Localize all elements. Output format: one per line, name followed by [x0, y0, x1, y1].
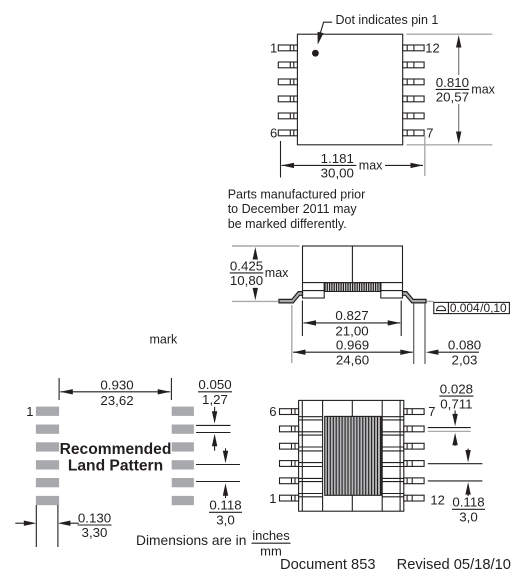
svg-text:6: 6: [270, 125, 277, 140]
svg-text:0.969: 0.969: [336, 338, 369, 353]
land pad left row 3: [36, 442, 59, 451]
svg-text:3,0: 3,0: [459, 510, 478, 525]
winding area (hatched): [325, 416, 382, 495]
svg-text:23,62: 23,62: [100, 393, 133, 408]
extension lines for 0.827 (dark): [301, 301, 303, 337]
top view pin 6 (left): [278, 130, 297, 136]
land pad right row 1: [172, 407, 194, 416]
bottom view pin 7 (right): [404, 409, 424, 415]
extension lines for 0.969 (gray): [291, 305, 293, 363]
bottom view pin 6 (left): [280, 409, 299, 415]
svg-text:0.080: 0.080: [448, 338, 481, 353]
svg-text:6: 6: [269, 404, 276, 419]
svg-text:21,00: 21,00: [335, 323, 368, 338]
extension line lead tip right (gray): [424, 303, 426, 364]
svg-text:1: 1: [269, 491, 276, 506]
top view pin 1 (left): [278, 45, 297, 51]
seating plane line right (gray): [427, 300, 434, 302]
svg-text:mark: mark: [150, 332, 179, 346]
extension line top left (gray): [232, 245, 300, 247]
land pad left row 5: [36, 478, 59, 487]
land pad right row 5: [172, 478, 194, 487]
pin 1 dot callout leader: [319, 22, 332, 36]
svg-text:0.028: 0.028: [440, 382, 473, 397]
package body top view: [297, 34, 402, 145]
top view pin 10 (right): [403, 79, 424, 85]
land pad left row 1: [36, 407, 59, 416]
svg-text:Parts manufactured prior: Parts manufactured prior: [228, 188, 366, 202]
seating plane symbol: [437, 306, 446, 311]
side view right terminal blocks: [381, 283, 403, 291]
seating plane line left (gray): [232, 300, 279, 302]
svg-text:7: 7: [426, 125, 433, 140]
land pad left row 6: [36, 496, 59, 505]
top view pin 5 (left): [278, 113, 297, 119]
side view left terminal blocks: [303, 283, 325, 291]
svg-text:0.930: 0.930: [100, 378, 133, 393]
svg-text:0.118: 0.118: [209, 498, 241, 513]
top view pin 2 (left): [278, 62, 297, 68]
svg-text:1.181: 1.181: [321, 151, 354, 166]
extension line top (gray): [407, 33, 493, 35]
side view winding (hatched): [324, 283, 381, 292]
svg-text:1,27: 1,27: [202, 392, 228, 407]
svg-text:20,57: 20,57: [436, 90, 469, 105]
bottom view pin 9 (right): [404, 443, 424, 449]
dimension 0.080/2,03: [436, 351, 451, 353]
bottom view body outline: [299, 400, 404, 511]
svg-text:max: max: [265, 266, 289, 280]
land pad left row 2: [36, 425, 59, 434]
left terminal block dividers: [299, 417, 323, 497]
svg-text:30,00: 30,00: [321, 166, 354, 181]
top view pin 11 (right): [403, 62, 424, 68]
svg-text:1: 1: [270, 41, 277, 56]
dimension 0.130/3,30 arrows: [15, 522, 26, 524]
extension line right (gray) for 1.181: [424, 136, 426, 177]
top view pin 12 (right): [403, 45, 424, 51]
svg-text:12: 12: [430, 493, 444, 508]
land pad right row 2: [172, 425, 194, 434]
svg-text:12: 12: [425, 41, 439, 56]
bobbin flange columns: [322, 400, 324, 511]
dimension 0.118/3,0 (bottom view pitch): [428, 463, 483, 465]
bottom view pin 8 (right): [404, 426, 424, 432]
svg-text:Document 853: Document 853: [280, 557, 376, 573]
bottom view pin 10 (right): [404, 461, 424, 467]
land pad right row 3: [172, 442, 194, 451]
svg-text:0.810: 0.810: [436, 75, 469, 90]
pin 1 dot: [312, 50, 319, 57]
top view pin 3 (left): [278, 79, 297, 85]
svg-text:0.004/0,10: 0.004/0,10: [450, 301, 507, 315]
bottom view pin 2 (left): [280, 478, 299, 484]
svg-text:0.050: 0.050: [198, 377, 231, 392]
svg-text:3,0: 3,0: [216, 513, 235, 528]
winding hatch lines: [327, 416, 380, 495]
svg-text:7: 7: [428, 404, 435, 419]
bottom view pin 11 (right): [404, 478, 424, 484]
svg-text:max: max: [471, 83, 495, 97]
dimension 0.118/3,0 (land pattern pitch): [196, 464, 240, 466]
svg-text:0.425: 0.425: [230, 258, 263, 273]
0.050 reference lines: [196, 424, 231, 426]
svg-text:to December 2011 may: to December 2011 may: [228, 202, 358, 216]
side view body center line: [351, 246, 353, 283]
svg-text:0.118: 0.118: [452, 495, 484, 510]
svg-text:inches: inches: [252, 528, 290, 543]
extension lines 0.930: [58, 378, 60, 400]
top view pin 4 (left): [278, 96, 297, 102]
svg-text:Land Pattern: Land Pattern: [68, 457, 163, 474]
svg-text:Dimensions are in: Dimensions are in: [136, 533, 246, 548]
0.028 reference lines: [428, 427, 471, 429]
svg-text:0,711: 0,711: [440, 396, 472, 411]
bottom view pin 3 (left): [280, 461, 299, 467]
dimension 0.969/24,60: [293, 351, 413, 353]
top view pin 7 (right): [403, 130, 424, 136]
right gull-wing lead: [403, 292, 427, 303]
svg-text:Recommended: Recommended: [60, 441, 172, 458]
bottom view pin 1 (left): [280, 495, 299, 501]
dimension 0.425/10,80 max: [254, 252, 256, 258]
svg-text:Dot indicates pin 1: Dot indicates pin 1: [336, 13, 439, 27]
svg-text:10,80: 10,80: [230, 273, 263, 288]
bottom view inner edge lines: [301, 400, 303, 511]
right terminal block dividers: [382, 417, 404, 497]
flatness tolerance box 0.004/0,10: [434, 302, 510, 313]
svg-text:0.130: 0.130: [78, 510, 111, 525]
extension lines 0.130: [35, 505, 37, 547]
top view pin 9 (right): [403, 96, 424, 102]
dimension 0.930/23,62: [60, 391, 170, 393]
land pad right row 4: [172, 460, 194, 469]
svg-text:2,03: 2,03: [452, 352, 478, 367]
svg-text:be marked differently.: be marked differently.: [228, 217, 347, 231]
land pad left row 4: [36, 460, 59, 469]
svg-text:3,30: 3,30: [82, 525, 108, 540]
dimension 0.810/20,57 max vertical line + arrows: [458, 41, 460, 75]
svg-text:mm: mm: [260, 543, 282, 558]
svg-text:24,60: 24,60: [336, 353, 369, 368]
land pad right row 6: [172, 496, 194, 505]
dimension line 1.181 with arrows: [282, 164, 319, 166]
side view body: [303, 246, 403, 283]
bottom view pin 5 (left): [280, 426, 299, 432]
extension line bottom (gray): [407, 144, 493, 146]
bottom flange center line: [351, 495, 353, 511]
svg-text:0.827: 0.827: [335, 308, 368, 323]
svg-text:1: 1: [26, 404, 33, 419]
top view pin 8 (right): [403, 113, 424, 119]
extension line left (dark) for 1.181: [280, 141, 282, 178]
dimension 0.827/21,00: [304, 322, 401, 324]
left gull-wing lead: [279, 292, 303, 303]
bottom view pin 12 (right): [404, 495, 424, 501]
svg-text:Revised 05/18/10: Revised 05/18/10: [397, 557, 511, 573]
top flange center line: [351, 400, 353, 416]
svg-text:max: max: [359, 159, 383, 173]
bottom view pin 4 (left): [280, 443, 299, 449]
